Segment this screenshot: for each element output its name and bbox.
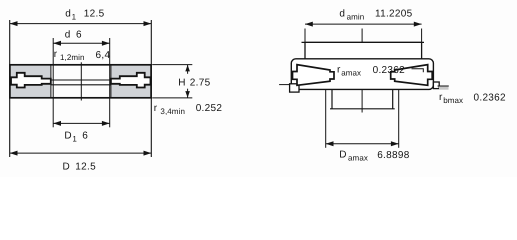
- svg-text:6: 6: [76, 29, 82, 40]
- svg-text:3,4min: 3,4min: [160, 107, 185, 116]
- Damax extension line right: [398, 89, 400, 147]
- svg-text:12.5: 12.5: [84, 9, 105, 20]
- roller left (trapezoid pictogram): [293, 65, 335, 86]
- grey washer block left: [10, 65, 51, 97]
- tapered roller left (stepped pictogram): [11, 73, 51, 88]
- dimension line D1: [53, 122, 109, 124]
- svg-text:11.2205: 11.2205: [375, 9, 413, 20]
- svg-text:r: r: [154, 103, 158, 114]
- svg-text:12.5: 12.5: [75, 161, 96, 172]
- damin extension line left: [304, 29, 306, 43]
- svg-text:6,4: 6,4: [96, 50, 111, 61]
- housing washer lip left: [290, 84, 299, 92]
- bore extension line left (d/D1, x=53.2): [52, 38, 54, 127]
- dimension line d1: [10, 23, 152, 25]
- centerline of right diagram (upper segment): [361, 29, 363, 60]
- svg-text:H: H: [178, 78, 186, 89]
- svg-text:1: 1: [72, 134, 77, 143]
- fillet leader ra (elbow): [412, 69, 424, 73]
- cage band lower line: [51, 84, 111, 86]
- roller right (trapezoid pictogram, mirrored): [391, 65, 433, 86]
- svg-text:2.75: 2.75: [190, 78, 211, 89]
- bearing outer box outline: [10, 65, 151, 98]
- boss bottom edge with overshoots: [330, 108, 395, 110]
- svg-text:amax: amax: [341, 69, 361, 78]
- washer bore face left (block inner edge): [50, 65, 52, 98]
- cage band upper line: [51, 79, 111, 81]
- svg-text:amax: amax: [348, 154, 368, 163]
- fillet leader left (ra): [279, 84, 289, 86]
- svg-text:1: 1: [72, 13, 77, 22]
- plate top edge overshoots: [302, 41, 425, 43]
- tapered roller right (stepped pictogram, mirrored): [111, 73, 151, 88]
- svg-text:D: D: [339, 150, 347, 161]
- svg-text:D: D: [64, 131, 72, 142]
- svg-text:0.252: 0.252: [196, 103, 223, 114]
- centerline of right diagram (lower segment): [361, 84, 363, 113]
- grey washer block right: [111, 65, 151, 97]
- left extension line (d1/D left, x=9.7): [9, 20, 11, 157]
- bore extension line right (d/D1, x=109.7): [109, 38, 111, 127]
- svg-text:D: D: [63, 161, 71, 172]
- svg-text:6: 6: [82, 131, 88, 142]
- svg-text:6.8898: 6.8898: [377, 150, 410, 161]
- housing washer lip right: [433, 82, 439, 89]
- right extension line (d1/D right, x=151.3): [150, 20, 152, 157]
- dimension line d: [53, 42, 109, 44]
- svg-text:d: d: [339, 9, 345, 20]
- svg-text:1,2min: 1,2min: [60, 53, 85, 62]
- svg-text:d: d: [65, 9, 71, 20]
- svg-text:0.2362: 0.2362: [474, 92, 507, 103]
- damin extension line right: [421, 29, 423, 43]
- housing washer center boss: [332, 89, 393, 108]
- svg-text:amin: amin: [347, 13, 365, 22]
- ledge line at right lip: [438, 85, 449, 87]
- washer bore face right (block inner edge): [110, 65, 112, 98]
- svg-text:bmax: bmax: [443, 96, 463, 105]
- bearing outline (rounded): [291, 59, 433, 90]
- H extension line bottom: [152, 97, 192, 99]
- dimension line damin: [305, 23, 422, 25]
- hatch under ledge: [439, 87, 449, 90]
- svg-text:0.2362: 0.2362: [373, 65, 406, 76]
- centerline of left diagram: [80, 62, 82, 100]
- H dimension arrows: [187, 65, 189, 74]
- shaft abutment plate: [305, 42, 422, 58]
- dimension line Damax: [326, 143, 399, 145]
- dimension line D: [10, 152, 152, 154]
- svg-text:r: r: [54, 49, 58, 60]
- H extension line top: [152, 64, 192, 66]
- Damax extension line left: [325, 89, 327, 147]
- svg-text:d: d: [65, 29, 71, 40]
